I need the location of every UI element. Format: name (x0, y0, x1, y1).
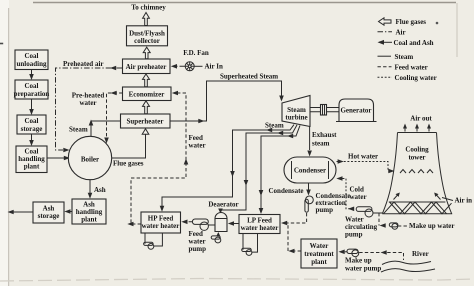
condensate extraction pump (305, 196, 313, 212)
svg-text:Air In: Air In (205, 62, 223, 70)
svg-text:Air: Air (396, 29, 406, 37)
svg-text:storage: storage (38, 212, 60, 220)
HP heater drain pump loop (144, 233, 163, 249)
svg-text:Superheater: Superheater (127, 118, 164, 126)
spray nozzles (400, 170, 433, 174)
svg-text:Boiler: Boiler (81, 156, 99, 164)
svg-text:steam: steam (312, 139, 330, 147)
svg-text:F.D. Fan: F.D. Fan (183, 49, 209, 57)
wire preheated air: air preheater to boiler (dash-dot) (56, 66, 123, 153)
air preheater box (123, 59, 171, 74)
svg-text:tower: tower (408, 154, 425, 162)
wire coal to boiler (47, 156, 70, 161)
svg-text:Air in: Air in (455, 197, 473, 205)
svg-text:Make up: Make up (345, 257, 372, 265)
svg-text:preparation: preparation (14, 90, 50, 98)
water circulating pump (356, 207, 383, 217)
svg-text:water: water (189, 142, 206, 150)
wire cold water: circulating pump to condenser (dashed) (336, 176, 354, 211)
svg-text:Steam: Steam (69, 126, 88, 134)
svg-text:water pump: water pump (345, 265, 381, 273)
coal storage box (17, 115, 46, 134)
wire steam boiler to superheater (89, 120, 121, 137)
svg-text:Deaerator: Deaerator (208, 201, 238, 209)
wire LP heater to deaerator (228, 221, 239, 226)
svg-text:turbine: turbine (285, 114, 307, 122)
svg-text:water heater: water heater (241, 224, 279, 232)
svg-text:storage: storage (21, 125, 43, 133)
svg-text:pump: pump (189, 245, 207, 253)
deaerator drain pump (211, 232, 221, 243)
condensate extraction pump label (316, 192, 351, 214)
feed water pump symbol (192, 219, 215, 230)
node Feed water label (189, 134, 206, 150)
wire condensate pump to LP heater (dashed) (281, 213, 307, 225)
svg-text:Coal: Coal (25, 82, 39, 90)
HP feed water heater box (141, 212, 181, 233)
svg-text:Cooling water: Cooling water (395, 74, 437, 82)
svg-text:To chimney: To chimney (131, 4, 166, 12)
wire treated water to LP heater (dashed) (288, 223, 301, 253)
svg-text:pump: pump (345, 231, 363, 239)
ash handling plant box (72, 199, 106, 224)
svg-text:water: water (79, 99, 96, 107)
deaerator vessel (215, 213, 227, 232)
svg-text:Coal: Coal (25, 52, 39, 60)
wire feed pump to HP heater (dashed) (181, 220, 192, 225)
ash storage box (33, 202, 64, 223)
dust/flyash collector box (127, 26, 168, 46)
node Cold water label (350, 186, 367, 202)
LP heater drain pump loop (242, 234, 258, 256)
svg-text:Air preheater: Air preheater (126, 63, 167, 71)
wire air in to fan (dash-dot) (194, 65, 202, 67)
svg-text:Condenser: Condenser (294, 167, 326, 175)
svg-text:Economizer: Economizer (129, 90, 165, 98)
svg-text:Preheated air: Preheated air (63, 60, 104, 68)
coal unloading box (15, 50, 48, 70)
cooling tower shell (382, 133, 451, 214)
generator box (336, 99, 377, 122)
superheater box (121, 114, 171, 128)
legend steam: solid line + label (378, 53, 414, 61)
make up water pump (tower) (389, 223, 407, 229)
svg-text:River: River (412, 250, 429, 258)
svg-text:Exhaust: Exhaust (312, 131, 337, 139)
F.D. fan symbol (185, 62, 194, 71)
svg-text:plant: plant (81, 216, 97, 224)
cooling tower label (405, 146, 429, 162)
svg-text:Steam: Steam (265, 122, 284, 130)
air out arrows (403, 124, 431, 132)
wire coal preparation to storage (29, 99, 34, 115)
svg-text:plant: plant (24, 163, 40, 171)
cooling tower basin lattice (382, 202, 452, 214)
feed water pump label (189, 230, 207, 253)
svg-text:plant: plant (311, 258, 327, 266)
svg-text:pump: pump (316, 206, 334, 214)
legend feed water: dashed line + label (378, 64, 428, 72)
air flow arrows inside tower (394, 193, 441, 200)
make up water pump label (345, 257, 381, 273)
wire superheated steam: superheater to turbine (170, 81, 284, 123)
svg-text:Cooling: Cooling (405, 146, 429, 154)
svg-text:treatment: treatment (304, 250, 334, 258)
river waves (381, 261, 435, 272)
node Air in label + leader (442, 197, 472, 205)
svg-text:Coal and Ash: Coal and Ash (394, 39, 434, 47)
node Pre-heated water label (72, 92, 105, 108)
wire exhaust steam turbine to condenser (307, 126, 312, 156)
wire pre-heated water economizer to boiler (dashed) (104, 91, 122, 144)
wire ash handling to ash storage (64, 209, 72, 214)
wire make up water to circulating line (dashed) (379, 213, 386, 228)
wire feed water: HP heater to economizer (dashed) (127, 91, 188, 227)
svg-text:unloading: unloading (17, 60, 47, 68)
svg-text:collector: collector (134, 37, 160, 45)
wire extraction steam to HP heater (160, 125, 294, 212)
wire flue gas to chimney (hollow arrow) (143, 13, 150, 26)
wire flue gases from boiler to superheater (112, 129, 149, 168)
legend coal and ash: arrow + label (378, 39, 434, 47)
wire flue gas superheater to economizer (hollow arrow) (143, 101, 150, 114)
water treatment plant box (301, 239, 337, 268)
wire ash storage outward (8, 210, 34, 215)
node Exhaust steam label (312, 131, 337, 148)
svg-text:Generator: Generator (340, 107, 371, 115)
svg-text:water: water (350, 193, 367, 201)
legend cooling water: fine dashed line + label (378, 74, 437, 82)
legend flue gases: hollow arrow + label (379, 18, 427, 26)
shaft turbine to generator with coupling (310, 105, 339, 116)
wire coal storage to handling plant (29, 134, 34, 146)
wire fan to air preheater (dash-dot) (171, 64, 185, 69)
wire flue gas economizer to air preheater (hollow arrow) (143, 74, 150, 87)
coal preparation box (14, 80, 50, 99)
svg-text:water heater: water heater (142, 222, 180, 230)
svg-text:Hot water: Hot water (348, 153, 378, 161)
wire condensate condenser to extraction pump (306, 183, 311, 196)
svg-text:Coal: Coal (25, 117, 39, 125)
water circulating pump label (345, 216, 378, 239)
svg-text:Water: Water (310, 242, 329, 250)
svg-text:Superheated Steam: Superheated Steam (220, 73, 278, 81)
svg-text:Steam: Steam (395, 53, 414, 61)
make up water pump (river) (339, 249, 359, 257)
wire ash boiler to ash handling plant (88, 180, 93, 199)
legend air: dash-dot line + label (378, 29, 406, 37)
boiler (68, 136, 111, 179)
svg-text:Air out: Air out (410, 115, 432, 123)
wire extraction steam to LP heater (259, 125, 300, 214)
steam turbine (282, 96, 310, 127)
condenser (284, 157, 336, 183)
svg-text:Condensate: Condensate (269, 187, 304, 195)
coal handling plant box (16, 146, 47, 173)
svg-text:Flue gases: Flue gases (396, 18, 427, 26)
svg-text:Ash: Ash (94, 186, 106, 194)
wire hot water condenser to cooling tower (337, 159, 395, 173)
wire extraction steam to deaerator (218, 125, 297, 214)
svg-text:Feed water: Feed water (395, 64, 428, 72)
svg-text:Make up water: Make up water (409, 222, 455, 230)
economizer box (123, 87, 172, 101)
wire coal unloading to preparation (29, 70, 34, 81)
svg-text:Flue gases: Flue gases (113, 160, 144, 168)
wire flue gas air preheater to dust collector (hollow arrow) (143, 47, 150, 59)
LP feed water heater box (239, 215, 280, 234)
wire river to make up water pump (dashed) (359, 250, 403, 260)
